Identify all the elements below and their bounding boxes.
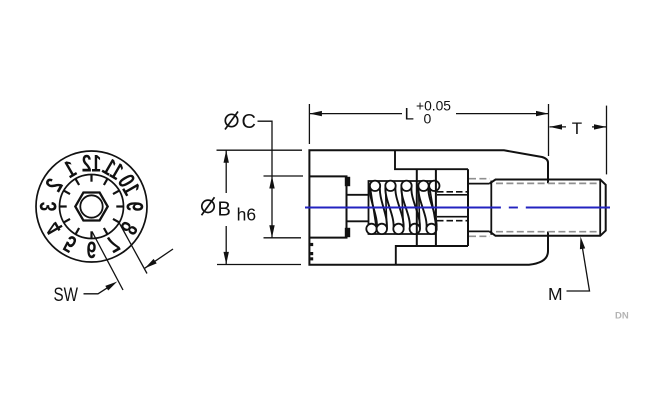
- SW leader with arrow: [84, 284, 114, 294]
- body outline: [309, 150, 548, 264]
- threaded stud M outline: [490, 180, 606, 236]
- bore top line: [395, 150, 468, 169]
- dial inner ring: [60, 175, 124, 239]
- svg-text:L: L: [405, 105, 414, 124]
- SW second arrow: [145, 249, 173, 268]
- svg-text:2: 2: [41, 174, 69, 196]
- spring washer right edge: [435, 169, 437, 246]
- spring coil bands: [370, 186, 437, 229]
- dia C leader: [258, 121, 273, 176]
- centerline: [305, 207, 610, 209]
- dial numerals 1-12 (mirrored clock): [36, 151, 147, 262]
- dimension L line left: [310, 113, 402, 115]
- dia B label: [202, 197, 215, 215]
- svg-text:h6: h6: [237, 205, 256, 225]
- svg-text:C: C: [242, 111, 256, 133]
- guide block hidden thread lines: [437, 192, 468, 221]
- spring envelope: [369, 181, 437, 234]
- thread root hidden lines (gray): [469, 179, 599, 237]
- thread end chamfer edge: [599, 180, 601, 236]
- thread start edge: [490, 181, 492, 235]
- dimension L extension lines: [308, 104, 310, 144]
- stem: [347, 194, 369, 196]
- hex bore circle: [80, 195, 102, 217]
- svg-text:M: M: [548, 284, 563, 304]
- adjusting insert (left block): [309, 176, 346, 237]
- knurl/thread teeth on body left edge: [310, 243, 313, 246]
- insert corner seals: [345, 177, 350, 186]
- svg-text:0: 0: [424, 111, 432, 127]
- M leader: [567, 244, 590, 291]
- SW extension line from hex flat (line A): [92, 232, 123, 291]
- neck between block and thread: [468, 183, 490, 185]
- spring wire sections bottom: [366, 224, 436, 234]
- dial tick marks: [60, 175, 123, 238]
- svg-text:DN: DN: [615, 311, 629, 322]
- svg-text:7: 7: [102, 230, 124, 258]
- hex socket: [75, 193, 107, 221]
- dial outer circle: [36, 151, 147, 262]
- dimension L line right: [456, 113, 549, 115]
- svg-text:T: T: [572, 119, 582, 138]
- svg-text:SW: SW: [54, 285, 79, 306]
- spring washer left edge: [416, 169, 418, 246]
- dimension T: [606, 106, 608, 175]
- svg-text:+0.05: +0.05: [416, 97, 451, 113]
- dia C extension lines: [264, 175, 304, 177]
- svg-text:3: 3: [36, 202, 62, 212]
- svg-text:B: B: [218, 198, 231, 220]
- guide block right edge: [467, 169, 469, 246]
- dia B dimension line: [225, 150, 227, 193]
- svg-text:9: 9: [121, 202, 147, 212]
- dia C label: [225, 112, 238, 130]
- dia B extension lines: [217, 149, 303, 151]
- dia C dimension line: [271, 176, 273, 238]
- bore bottom line: [396, 246, 468, 265]
- svg-text:5: 5: [59, 230, 81, 258]
- svg-text:8: 8: [115, 217, 143, 239]
- svg-text:12: 12: [82, 151, 101, 177]
- SW extension line from hex flat (line B): [119, 223, 147, 274]
- svg-text:4: 4: [41, 217, 69, 239]
- spring wire sections top: [370, 181, 440, 191]
- svg-text:6: 6: [87, 236, 97, 262]
- svg-text:1: 1: [59, 156, 81, 184]
- dimension L text: [405, 97, 452, 126]
